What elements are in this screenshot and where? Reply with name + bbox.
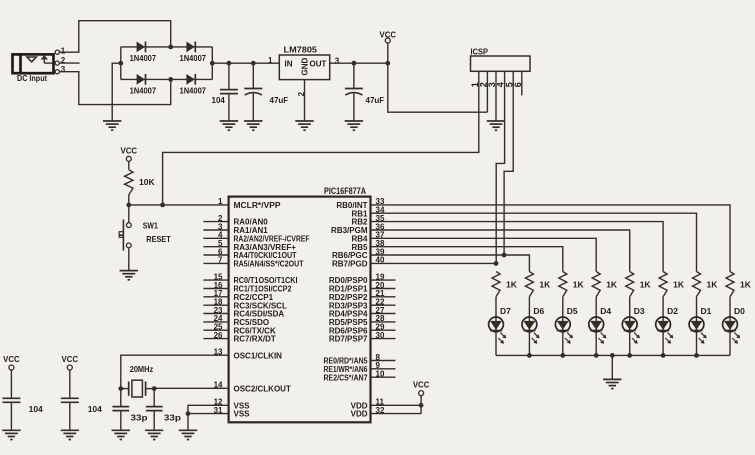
wire LED D6 to cathode rail xyxy=(528,332,530,356)
svg-text:33p: 33p xyxy=(164,413,181,423)
wire R9 to LED D0 xyxy=(729,297,731,317)
svg-text:1K: 1K xyxy=(707,280,719,290)
wire regulator OUT to VCC node xyxy=(330,62,388,64)
junction VCC node xyxy=(385,61,390,66)
svg-text:104: 104 xyxy=(212,96,226,105)
ground C7 xyxy=(61,430,79,439)
wire U1 pin 24 stub xyxy=(203,321,228,323)
LED D2 xyxy=(656,317,674,344)
svg-text:47uF: 47uF xyxy=(270,96,289,105)
svg-text:D7: D7 xyxy=(500,306,511,316)
svg-text:1K: 1K xyxy=(740,280,752,290)
svg-text:1K: 1K xyxy=(506,280,518,290)
LED D7 xyxy=(489,317,507,344)
junction rail x629.7 xyxy=(627,353,632,358)
wire bridge minus to ground xyxy=(112,63,121,121)
wire LED cathode rail xyxy=(496,354,730,356)
wire R4 to LED D5 xyxy=(562,297,564,317)
LED D6 xyxy=(522,317,540,344)
junction VSS xyxy=(186,411,191,416)
wire switch to ground xyxy=(128,248,130,271)
svg-text:D5: D5 xyxy=(567,306,578,316)
wire RB6 line pin 39 xyxy=(371,255,530,272)
svg-text:1N4007: 1N4007 xyxy=(130,87,157,96)
wire crystal right down xyxy=(153,389,155,407)
ground LED rail xyxy=(603,379,621,388)
junction rail x696.5 xyxy=(694,353,699,358)
svg-text:20MHz: 20MHz xyxy=(130,364,154,374)
svg-text:OSC1/CLKIN: OSC1/CLKIN xyxy=(234,351,283,360)
junction crystal right xyxy=(152,386,157,391)
junction PGD RB7 xyxy=(494,261,499,266)
svg-text:VCC: VCC xyxy=(3,354,20,364)
svg-text:RE2/CS*/AN7: RE2/CS*/AN7 xyxy=(324,373,368,382)
svg-text:LM7805: LM7805 xyxy=(284,44,318,54)
svg-text:D1: D1 xyxy=(701,306,712,316)
connector J1 DC Input jack xyxy=(13,50,60,74)
wire LED D4 to cathode rail xyxy=(595,332,597,356)
svg-text:1N4007: 1N4007 xyxy=(130,54,157,63)
wire ICSP pin1 to MCLR net xyxy=(163,71,479,205)
wire U1 pin 30 stub xyxy=(371,338,396,340)
wire rail bridge to regulator IN xyxy=(212,62,279,64)
svg-text:1K: 1K xyxy=(539,280,551,290)
svg-text:OUT: OUT xyxy=(310,60,327,69)
wire U1 pin 8 stub xyxy=(371,360,396,362)
svg-text:1: 1 xyxy=(268,56,273,65)
resistor R6 1K xyxy=(626,272,634,297)
junction bridge top AC xyxy=(168,45,173,50)
wire bridge bottom row xyxy=(121,78,213,80)
wire bridge right side xyxy=(211,47,213,80)
capacitor C1 104 xyxy=(220,63,238,121)
junction VDD xyxy=(419,403,424,408)
wire U1 pin 25 stub xyxy=(203,329,228,331)
wire U2 GND pin 2 xyxy=(304,80,306,121)
switch SW1 push-button xyxy=(119,220,131,251)
ground C4 xyxy=(112,430,130,439)
svg-text:104: 104 xyxy=(88,404,102,414)
power VCC regulator output xyxy=(380,29,397,43)
diode D_B3 1N4007 xyxy=(137,74,146,85)
wire VCC terminal down xyxy=(387,43,389,63)
svg-text:ICSP: ICSP xyxy=(471,48,489,57)
svg-text:1N4007: 1N4007 xyxy=(180,54,207,63)
svg-text:10K: 10K xyxy=(139,177,155,187)
junction bridge plus node xyxy=(210,61,215,66)
ground bridge xyxy=(103,121,121,130)
wire VSS pin12 xyxy=(188,405,229,413)
svg-text:VDD: VDD xyxy=(351,410,368,419)
wire U1 pin 19 stub xyxy=(371,279,396,281)
LED D5 xyxy=(555,317,573,344)
wire VCC to C6 xyxy=(10,370,12,398)
wire VCC to R1 xyxy=(128,161,130,169)
svg-text:VSS: VSS xyxy=(234,410,251,419)
svg-text:1K: 1K xyxy=(573,280,585,290)
wire RB2 line pin 35 xyxy=(371,222,664,272)
wire LED D1 to cathode rail xyxy=(696,332,698,356)
wire RB5 line pin 38 xyxy=(371,247,563,272)
junction crystal left xyxy=(118,386,123,391)
svg-text:IN: IN xyxy=(285,60,293,69)
power VCC VDD xyxy=(413,380,430,396)
wire bridge left side xyxy=(120,47,122,80)
svg-text:47uF: 47uF xyxy=(366,96,385,105)
capacitor C4 33p xyxy=(112,407,129,431)
wire LED D7 to cathode rail xyxy=(495,332,497,356)
wire R2 to LED D7 xyxy=(495,297,497,317)
svg-text:RB7/PGD: RB7/PGD xyxy=(332,260,368,269)
svg-text:1K: 1K xyxy=(640,280,652,290)
svg-text:3: 3 xyxy=(335,57,340,66)
resistor R4 1K xyxy=(559,272,567,297)
wire U1 pin 5 stub xyxy=(203,246,228,248)
resistor R1 10K xyxy=(125,170,133,195)
svg-text:DC Input: DC Input xyxy=(17,74,47,83)
svg-text:OSC2/CLKOUT: OSC2/CLKOUT xyxy=(234,384,291,393)
wire ICSP pin3 to ground xyxy=(495,71,497,121)
capacitor C3 47uF xyxy=(345,63,363,121)
power VCC decoupling 2 xyxy=(62,354,79,370)
wire U1 pin 3 stub xyxy=(203,229,228,231)
resistor R7 1K xyxy=(659,272,667,297)
wire OSC2 pin14 to crystal xyxy=(154,387,228,389)
junction rail x663.1 xyxy=(661,353,666,358)
wire U1 pin 17 stub xyxy=(203,296,228,298)
wire R6 to LED D3 xyxy=(629,297,631,317)
wire U1 pin 23 stub xyxy=(203,313,228,315)
svg-text:RESET: RESET xyxy=(146,234,171,244)
svg-text:VCC: VCC xyxy=(121,145,138,155)
wire U1 pin 15 stub xyxy=(203,279,228,281)
svg-text:1: 1 xyxy=(61,47,66,56)
capacitor C5 33p xyxy=(146,407,163,431)
wire J1 pin1 to bridge top AC node xyxy=(59,21,170,53)
wire U1 pin 20 stub xyxy=(371,288,396,290)
junction bridge bottom AC xyxy=(168,77,173,82)
wire R1 to MCLR node xyxy=(128,195,130,205)
ground SW1 xyxy=(120,271,138,280)
svg-text:D0: D0 xyxy=(734,306,745,316)
wire LED D3 to cathode rail xyxy=(629,332,631,356)
wire U1 pin 18 stub xyxy=(203,304,228,306)
wire RB1 line pin 34 xyxy=(371,213,697,271)
wire U1 pin 21 stub xyxy=(371,296,396,298)
junction MCLR R1 xyxy=(126,203,131,208)
wire U1 pin 9 stub xyxy=(371,368,396,370)
wire LED D0 to cathode rail xyxy=(729,332,731,356)
junction rail C1 xyxy=(227,61,232,66)
junction rail x562.8 xyxy=(560,353,565,358)
LED D4 xyxy=(589,317,607,344)
wire RB4 line pin 37 xyxy=(371,238,597,271)
svg-text:GND: GND xyxy=(300,58,309,76)
svg-text:VCC: VCC xyxy=(62,354,79,364)
wire rail to ground xyxy=(611,355,613,379)
svg-text:3: 3 xyxy=(61,65,66,74)
svg-text:RC7/RX/DT: RC7/RX/DT xyxy=(234,335,276,344)
wire VSS pin31 xyxy=(188,413,229,415)
svg-text:10: 10 xyxy=(376,370,385,379)
svg-text:D4: D4 xyxy=(600,306,611,316)
wire ICSP pin5 PGC to RB6 xyxy=(504,71,513,255)
wire U1 pin 29 stub xyxy=(371,329,396,331)
ground ICSP xyxy=(487,121,505,130)
wire U1 pin 2 stub xyxy=(203,221,228,223)
ground C6 xyxy=(2,430,20,439)
wire U1 pin 16 stub xyxy=(203,288,228,290)
svg-text:26: 26 xyxy=(214,331,223,340)
LED D3 xyxy=(622,317,640,344)
ground U2 xyxy=(295,121,313,130)
svg-text:RD7/PSP7: RD7/PSP7 xyxy=(329,335,368,344)
power VCC decoupling 1 xyxy=(3,354,20,370)
ground C5 xyxy=(145,430,163,439)
wire ICSP pin4 PGD to RB7 xyxy=(496,71,504,263)
svg-text:7: 7 xyxy=(218,256,223,265)
wire LED D2 to cathode rail xyxy=(662,332,664,356)
wire VCC to ICSP pin2 xyxy=(388,63,488,112)
wire R3 to LED D6 xyxy=(528,297,530,317)
wire U1 pin 22 stub xyxy=(371,304,396,306)
wire RB7 line pin 40 xyxy=(371,262,497,264)
junction rail C3 xyxy=(352,61,357,66)
junction rail ground tap xyxy=(610,353,615,358)
resistor R8 1K xyxy=(693,272,701,297)
junction rail x529.4 xyxy=(527,353,532,358)
resistor R3 1K xyxy=(525,272,533,297)
ground C2 xyxy=(244,121,262,130)
capacitor C7 104 xyxy=(61,398,79,430)
svg-text:1: 1 xyxy=(218,197,223,206)
wire VCC to VDD xyxy=(420,396,422,414)
junction rail C2 xyxy=(251,61,256,66)
junction bridge minus node xyxy=(118,61,123,66)
capacitor C2 47uF xyxy=(244,63,262,121)
svg-text:30: 30 xyxy=(376,331,385,340)
svg-text:PIC16F877A: PIC16F877A xyxy=(324,186,366,196)
diode D_B1 1N4007 xyxy=(137,42,146,53)
diode D_B4 1N4007 xyxy=(186,74,195,85)
wire VSS to ground xyxy=(187,414,189,431)
ground VSS xyxy=(179,430,197,439)
wire ICSP pin6 stub xyxy=(521,71,523,95)
power VCC reset pull-up xyxy=(121,145,138,161)
svg-text:1K: 1K xyxy=(673,280,685,290)
wire MCLR to switch xyxy=(128,205,130,223)
svg-text:104: 104 xyxy=(29,404,43,414)
svg-text:D2: D2 xyxy=(667,306,678,316)
resistor R5 1K xyxy=(592,272,600,297)
resistor R9 1K xyxy=(726,272,734,297)
wire RB3 line pin 36 xyxy=(371,230,630,272)
svg-text:D3: D3 xyxy=(634,306,645,316)
regulator U2 LM7805 body xyxy=(279,55,329,80)
wire VDD pin32 xyxy=(371,413,422,415)
wire R8 to LED D1 xyxy=(696,297,698,317)
svg-text:33p: 33p xyxy=(131,413,148,423)
wire R5 to LED D4 xyxy=(595,297,597,317)
wire U1 pin 4 stub xyxy=(203,237,228,239)
wire U1 pin 26 stub xyxy=(203,338,228,340)
svg-text:D6: D6 xyxy=(533,306,544,316)
connector J2 ICSP body xyxy=(471,56,531,71)
wire LED D5 to cathode rail xyxy=(562,332,564,356)
resistor R2 1K xyxy=(492,272,500,297)
wire U1 pin 27 stub xyxy=(371,313,396,315)
wire MCLR node to chip pin1 xyxy=(129,204,229,206)
svg-text:MCLR*/VPP: MCLR*/VPP xyxy=(234,201,282,210)
wire R7 to LED D2 xyxy=(662,297,664,317)
svg-text:1K: 1K xyxy=(606,280,618,290)
wire VCC to C7 xyxy=(69,370,71,398)
junction PGC RB6 xyxy=(502,253,507,258)
ground C3 xyxy=(345,121,363,130)
LED D0 xyxy=(723,317,741,344)
wire ICSP pin2 VCC xyxy=(486,71,488,112)
wire J1 pin2 stub xyxy=(59,62,79,64)
svg-text:1N4007: 1N4007 xyxy=(180,87,207,96)
junction rail x596.2 xyxy=(594,353,599,358)
wire bridge top row xyxy=(121,46,213,48)
ground C1 xyxy=(220,121,238,130)
wire U1 pin 28 stub xyxy=(371,321,396,323)
crystal X1 20MHz xyxy=(121,380,154,397)
wire OSC1 pin13 to crystal xyxy=(121,355,229,406)
svg-text:RA5/AN4/SS*/C2OUT: RA5/AN4/SS*/C2OUT xyxy=(234,260,304,269)
junction MCLR ICSP xyxy=(160,203,165,208)
wire RB0 line pin 33 xyxy=(371,205,731,272)
svg-text:SW1: SW1 xyxy=(143,220,158,230)
wire J1 pin3 to bridge bottom AC node xyxy=(59,72,170,105)
wire U1 pin 10 stub xyxy=(371,376,396,378)
wire U1 pin 6 stub xyxy=(203,254,228,256)
wire U1 pin 7 stub xyxy=(203,262,228,264)
diode D_B2 1N4007 xyxy=(186,42,195,53)
capacitor C6 104 xyxy=(2,398,20,430)
svg-text:VCC: VCC xyxy=(413,380,430,390)
LED D1 xyxy=(689,317,707,344)
wire VDD pin11 xyxy=(371,404,422,406)
IC U1 PIC16F877A body xyxy=(229,197,371,423)
